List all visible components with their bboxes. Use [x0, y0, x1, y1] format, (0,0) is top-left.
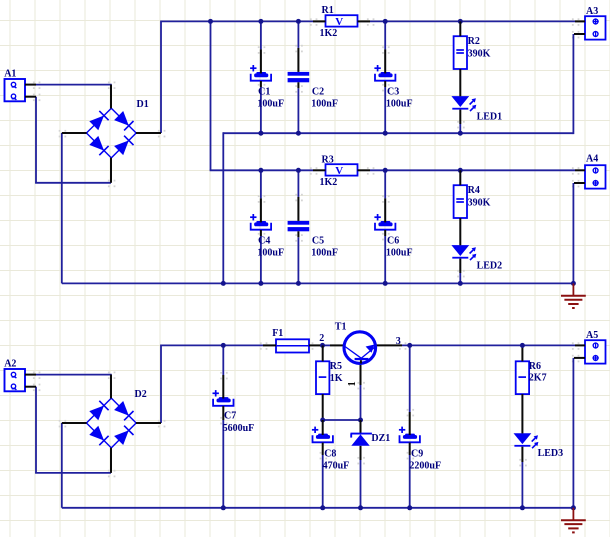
svg-text:390K: 390K — [468, 49, 491, 60]
label D2 — [135, 389, 147, 400]
junction bottom rail / LED3 — [520, 505, 525, 510]
pin T1 base — [360, 358, 362, 385]
wire C8 bottom — [322, 455, 324, 508]
LED LED2 — [451, 245, 476, 260]
svg-text:LED3: LED3 — [538, 448, 564, 459]
label F1 — [272, 328, 283, 339]
connector A5 — [585, 340, 606, 363]
capacitor C6 — [374, 214, 395, 230]
pin C8 top — [322, 420, 324, 435]
wire C2 bottom — [297, 88, 299, 133]
junction ground rail / return1 drop — [221, 281, 226, 286]
svg-text:5600uF: 5600uF — [223, 423, 255, 434]
pin F1 left — [263, 344, 276, 346]
svg-text:R4: R4 — [468, 185, 480, 196]
wire A2 pin2 down — [35, 387, 37, 473]
label R5 — [330, 361, 342, 372]
svg-text:V: V — [335, 16, 343, 28]
label C4 — [258, 235, 270, 246]
pin A5-1 — [575, 344, 585, 346]
label R1 symbol V — [335, 16, 343, 28]
svg-text:R1: R1 — [322, 5, 334, 16]
svg-text:F1: F1 — [272, 328, 283, 339]
resistor R6 — [516, 361, 529, 394]
label LED3 — [538, 448, 564, 459]
svg-text:C4: C4 — [258, 235, 270, 246]
wire top rail net1 — [161, 20, 313, 22]
svg-text:D2: D2 — [135, 389, 147, 400]
pin A2-1 — [25, 374, 36, 376]
label R2 — [468, 36, 480, 47]
junction node3 / R6 — [520, 343, 525, 348]
label LED2 — [477, 261, 503, 272]
wire C1 bottom — [260, 87, 262, 133]
pin A1-1 — [25, 84, 36, 86]
svg-text:DZ1: DZ1 — [371, 433, 390, 444]
label R3 symbol V — [335, 165, 343, 177]
svg-text:A4: A4 — [586, 154, 598, 165]
wire A2 pin2 across — [35, 472, 111, 474]
bridge rectifier D1 — [86, 108, 136, 158]
pin D1 AC bottom — [110, 158, 112, 183]
bridge rectifier D2 — [86, 398, 136, 448]
pin D2 plus right — [136, 422, 161, 424]
junction lower rail / C7 — [221, 343, 226, 348]
pin LED2 bottom — [459, 259, 461, 273]
value R2 390K — [468, 49, 491, 60]
pin D2 AC top — [110, 375, 112, 399]
svg-text:C1: C1 — [258, 86, 270, 97]
wire C9 top — [409, 345, 411, 412]
junction net2 / C3 — [383, 19, 388, 24]
capacitor C3 — [374, 65, 395, 81]
capacitor C9 — [399, 427, 420, 443]
LED LED1 — [451, 96, 476, 111]
wire channel1 return rail — [223, 132, 573, 134]
label C5 — [312, 235, 324, 246]
wire D2 plus riser — [160, 345, 162, 424]
pin A2-2 — [25, 386, 36, 388]
pin D1 plus right — [136, 132, 161, 134]
svg-text:100nF: 100nF — [311, 98, 338, 109]
svg-text:T1: T1 — [335, 321, 347, 332]
value C7 5600uF — [223, 423, 255, 434]
svg-text:390K: 390K — [468, 198, 491, 209]
pin C2 bottom — [297, 82, 299, 88]
wire channel1 return drop — [222, 132, 224, 283]
junction return1 / C1 — [258, 131, 263, 136]
wire C4 top — [260, 170, 262, 198]
pin R6-LED3 link — [521, 394, 523, 433]
pin C1 top — [260, 49, 262, 73]
svg-text:1: 1 — [347, 381, 358, 386]
resistor R3 — [326, 164, 358, 175]
value C4 100uF — [257, 247, 284, 258]
label A5 — [586, 330, 598, 341]
wire C5 bottom — [297, 237, 299, 283]
pin R5 top — [322, 345, 324, 361]
pin D2 minus left — [62, 422, 87, 424]
label A4 — [586, 154, 598, 165]
pin R3 right — [358, 169, 371, 171]
wire node3 rail — [402, 344, 575, 346]
value C2 100nF — [311, 98, 338, 109]
svg-text:100uF: 100uF — [386, 98, 413, 109]
label C8 — [324, 449, 336, 460]
pin C3 top — [384, 49, 386, 73]
junction ground rail / C4 — [258, 281, 263, 286]
pin LED1 bottom — [459, 110, 461, 124]
junction return1 / C3 — [383, 131, 388, 136]
svg-text:V: V — [335, 165, 343, 177]
label A2 — [4, 358, 16, 369]
pin R4 top — [459, 170, 461, 185]
pin C5 top — [297, 197, 299, 221]
pin F1 right — [309, 344, 323, 346]
wire A5 pin2 return — [572, 358, 574, 509]
junction net3 / C4 — [258, 168, 263, 173]
svg-text:C3: C3 — [387, 86, 399, 97]
pin R3 left — [313, 169, 326, 171]
junction ground rail / C5 — [296, 281, 301, 286]
wire C7 bottom — [222, 420, 224, 508]
value C8 470uF — [323, 460, 350, 471]
junction ground rail / C6 — [383, 281, 388, 286]
pin A4-2 — [574, 182, 585, 184]
wire C6 bottom — [384, 236, 386, 283]
wire LED2 to ground rail — [459, 273, 461, 283]
svg-text:100nF: 100nF — [311, 247, 338, 258]
wire A4 pin2 return — [572, 183, 574, 284]
connector A1 — [5, 79, 26, 101]
svg-text:C2: C2 — [312, 86, 324, 97]
label LED1 — [477, 112, 503, 123]
junction bottom rail / C8 — [320, 505, 325, 510]
pin A3-1 — [575, 20, 585, 22]
wire C1 top — [260, 21, 262, 49]
wire C3 bottom — [384, 87, 386, 133]
junction node / R5 C8 — [320, 418, 325, 423]
value R3 1K2 — [320, 177, 338, 188]
junction net1 / channel2 feed — [208, 19, 213, 24]
zener diode DZ1 — [351, 434, 372, 446]
wire channel2 rail to R3 — [210, 169, 313, 171]
svg-text:R6: R6 — [529, 361, 541, 372]
value C9 2200uF — [409, 460, 441, 471]
pin C6 top — [384, 198, 386, 222]
label C3 — [387, 86, 399, 97]
pin C1 bottom — [260, 81, 262, 87]
label A1 — [4, 68, 16, 79]
svg-text:3: 3 — [396, 336, 401, 347]
connector A4 — [585, 165, 606, 188]
wire bottom rail — [62, 507, 574, 509]
pin D1 AC top — [110, 85, 112, 109]
svg-text:R3: R3 — [322, 154, 334, 165]
svg-text:C8: C8 — [324, 449, 336, 460]
pin R1 right — [358, 20, 371, 22]
junction net2 / R2 — [458, 19, 463, 24]
capacitor C2 — [288, 72, 310, 82]
connector A2 — [5, 369, 26, 391]
connector A3 — [585, 16, 606, 39]
value C6 100uF — [386, 247, 413, 258]
junction node / base DZ1 — [358, 418, 363, 423]
junction ground rail / LED2 — [458, 281, 463, 286]
wire C9 bottom — [409, 455, 411, 508]
value R1 1K2 — [320, 28, 338, 39]
transistor T1 — [344, 332, 376, 364]
wire top-section ground rail — [62, 282, 574, 284]
pin A4-1 — [575, 169, 585, 171]
wire DZ1 to bottom rail — [360, 460, 362, 508]
capacitor C1 — [250, 65, 271, 81]
value C1 100uF — [257, 98, 284, 109]
label C2 — [312, 86, 324, 97]
junction net1 / C2 — [296, 19, 301, 24]
wire A1 pin2 down — [35, 97, 37, 183]
svg-text:R5: R5 — [330, 361, 342, 372]
pin T1 emitter — [374, 344, 402, 346]
svg-text:100uF: 100uF — [386, 247, 413, 258]
value R5 1K — [330, 373, 343, 384]
resistor R4 — [454, 185, 467, 218]
wire A2 pin1 to bridge — [36, 374, 112, 376]
pin R4-LED2 link — [459, 218, 461, 245]
wire lower rail to F1 — [161, 344, 263, 346]
pin T1 collector — [330, 344, 346, 346]
label R3 — [322, 154, 334, 165]
value R6 2K7 — [529, 373, 547, 384]
wire riser from D1 + output — [160, 21, 162, 134]
label C6 — [387, 235, 399, 246]
pin C9 top — [409, 412, 411, 435]
svg-text:A3: A3 — [586, 6, 598, 17]
wire C6 top — [384, 170, 386, 198]
svg-text:A1: A1 — [4, 68, 16, 79]
label A3 — [586, 6, 598, 17]
svg-text:D1: D1 — [137, 99, 149, 110]
junction bottom rail / C9 — [407, 505, 412, 510]
label DZ1 — [371, 433, 390, 444]
pin DZ1 bottom — [360, 446, 362, 460]
svg-text:A2: A2 — [4, 358, 16, 369]
value C5 100nF — [311, 247, 338, 258]
svg-text:C5: C5 — [312, 235, 324, 246]
svg-text:LED2: LED2 — [477, 261, 503, 272]
pin C6 bottom — [384, 230, 386, 236]
pin DZ1 top — [360, 420, 362, 434]
ground bottom section — [561, 508, 586, 533]
wire channel2 feed drop — [210, 21, 212, 170]
svg-text:100uF: 100uF — [257, 247, 284, 258]
svg-text:470uF: 470uF — [323, 460, 350, 471]
label C7 — [224, 411, 236, 422]
pin R2-LED1 link — [459, 69, 461, 96]
pin end markers — [33, 18, 579, 477]
wire D2 minus drop — [61, 423, 63, 508]
wire C7 top — [222, 345, 224, 375]
resistor R2 — [454, 36, 467, 69]
wire node2 segment — [323, 344, 331, 346]
pin C8 bottom — [322, 443, 324, 455]
resistor R1 — [326, 15, 358, 26]
svg-text:C9: C9 — [411, 449, 423, 460]
label R1 — [322, 5, 334, 16]
pin D1 minus left — [62, 132, 87, 134]
junction return1 / LED1 — [458, 131, 463, 136]
svg-text:2: 2 — [319, 333, 324, 344]
pin C5 bottom — [297, 231, 299, 237]
junction node3 / C9 — [407, 343, 412, 348]
label R4 — [468, 185, 480, 196]
value C3 100uF — [386, 98, 413, 109]
label D1 — [137, 99, 149, 110]
wire LED3 to bottom rail — [521, 462, 523, 508]
pin R1 left — [313, 20, 326, 22]
wire top rail net1 after R1 — [370, 20, 575, 22]
label T1 — [335, 321, 347, 332]
pin C9 bottom — [409, 443, 411, 455]
svg-text:A5: A5 — [586, 330, 598, 341]
junction net4 / R4 — [458, 168, 463, 173]
junction net3 / C5 — [296, 168, 301, 173]
pin A5-2 — [574, 357, 585, 359]
pin C4 top — [260, 198, 262, 222]
junction net1 / C1 — [258, 19, 263, 24]
pin C4 bottom — [260, 230, 262, 236]
pin A1-2 — [25, 96, 36, 98]
pin R2 top — [459, 21, 461, 36]
wire channel2 rail after R3 — [370, 169, 575, 171]
pin A3-2 — [574, 33, 585, 35]
junction bottom rail / DZ1 — [358, 505, 363, 510]
svg-text:C7: C7 — [224, 411, 236, 422]
wire C4 bottom — [260, 236, 262, 283]
label C1 — [258, 86, 270, 97]
net label 2 — [319, 333, 324, 344]
svg-text:R2: R2 — [468, 36, 480, 47]
junction net4 / C6 — [383, 168, 388, 173]
label C9 — [411, 449, 423, 460]
resistor R5 — [316, 361, 329, 394]
wire D1 minus drop — [61, 133, 63, 283]
wire C3 top — [384, 21, 386, 49]
net label 3 — [396, 336, 401, 347]
ground top section — [561, 283, 586, 308]
svg-text:1K: 1K — [330, 373, 343, 384]
wire C5 top — [297, 170, 299, 197]
svg-text:2K7: 2K7 — [529, 373, 547, 384]
svg-text:C6: C6 — [387, 235, 399, 246]
wire A1 pin2 across — [35, 182, 111, 184]
LED LED3 — [514, 433, 539, 448]
capacitor C5 — [288, 221, 310, 231]
pin R5 bottom — [322, 394, 324, 420]
fuse F1 — [276, 339, 309, 352]
wire C2 top — [297, 21, 299, 48]
pin C7 top — [222, 375, 224, 399]
svg-text:2200uF: 2200uF — [409, 460, 441, 471]
pin C7 bottom — [222, 406, 224, 420]
capacitor C7 — [213, 390, 234, 406]
pin C2 top — [297, 48, 299, 72]
junction bottom rail / C7 — [221, 505, 226, 510]
junction return1 / C2 — [296, 131, 301, 136]
svg-text:LED1: LED1 — [477, 112, 503, 123]
svg-text:1K2: 1K2 — [320, 177, 338, 188]
junction node2 — [320, 343, 325, 348]
capacitor C8 — [312, 427, 333, 443]
label R6 — [529, 361, 541, 372]
wire T1 base to node — [360, 385, 362, 420]
value R4 390K — [468, 198, 491, 209]
svg-text:100uF: 100uF — [257, 98, 284, 109]
pin C3 bottom — [384, 81, 386, 87]
wire node line — [323, 419, 361, 421]
wire LED1 to return — [459, 124, 461, 133]
pin number 1 of T1 — [347, 381, 358, 386]
svg-text:1K2: 1K2 — [320, 28, 338, 39]
junction bottom rail / A5 return — [571, 505, 576, 510]
wire A1 pin1 to bridge — [36, 84, 112, 86]
junction ground rail / A4 return — [571, 281, 576, 286]
pin LED3 bottom — [521, 447, 523, 462]
capacitor C4 — [250, 214, 271, 230]
pin D2 AC bottom — [110, 448, 112, 473]
wire A3 pin2 return — [572, 34, 574, 134]
pin R6 top — [521, 345, 523, 361]
